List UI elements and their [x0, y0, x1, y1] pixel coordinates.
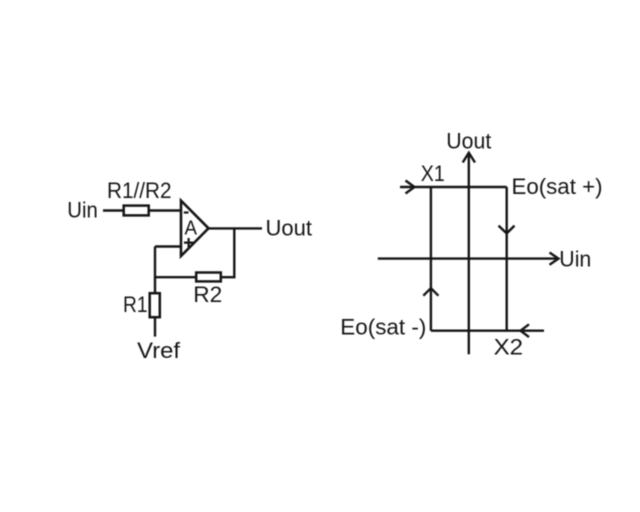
arrow head axis Uin — [550, 253, 559, 265]
arrow head on bottom segment — [521, 324, 530, 337]
svg-text:Uout: Uout — [266, 216, 313, 241]
svg-text:Uout: Uout — [446, 129, 491, 154]
resistor R1 — [150, 293, 160, 317]
svg-text:R1: R1 — [123, 292, 148, 317]
svg-text:Vref: Vref — [137, 338, 181, 363]
arrow head on top segment — [406, 181, 415, 194]
svg-text:Uin: Uin — [67, 198, 98, 223]
wire non-inverting input — [155, 245, 181, 247]
svg-text:Eo(sat -): Eo(sat -) — [340, 315, 426, 340]
svg-text:A: A — [185, 217, 198, 239]
resistor R1//R2 — [124, 206, 149, 216]
axis Uout vertical — [468, 154, 470, 354]
wire output branch vertical — [233, 228, 235, 277]
arrow head on right segment — [499, 226, 515, 234]
svg-text:R2: R2 — [193, 282, 222, 307]
wire feedback left vertical — [154, 247, 156, 279]
svg-text:Uin: Uin — [559, 247, 591, 272]
axis Uin horizontal — [378, 257, 558, 259]
wire junction to R1 — [154, 277, 156, 294]
op-amp non-inverting input marker — [184, 238, 193, 247]
wire Uin to R1//R2 — [103, 209, 124, 211]
arrow head on left segment — [423, 288, 438, 296]
hysteresis left segment — [430, 187, 432, 331]
svg-text:X1: X1 — [421, 161, 445, 186]
wire op-amp output to Uout — [209, 227, 263, 229]
svg-text:Eo(sat +): Eo(sat +) — [512, 174, 603, 199]
svg-text:X2: X2 — [494, 335, 523, 360]
wire R2 to output branch — [221, 276, 236, 278]
hysteresis right segment — [506, 187, 508, 331]
resistor R2 — [196, 273, 221, 282]
wire feedback bottom to R2 — [155, 276, 197, 278]
op-amp A — [181, 201, 209, 256]
hysteresis top segment — [400, 186, 507, 188]
op-amp inverting input marker — [184, 211, 189, 213]
hysteresis bottom segment — [431, 330, 544, 332]
wire R1//R2 to op-amp inverting input — [149, 209, 181, 211]
wire R1 to Vref — [154, 317, 156, 337]
arrow head axis Uout — [463, 153, 475, 163]
svg-text:R1//R2: R1//R2 — [107, 178, 172, 203]
